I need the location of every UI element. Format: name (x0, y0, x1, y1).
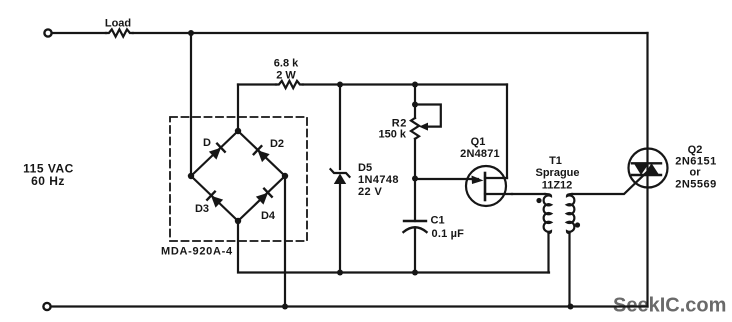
svg-text:Load: Load (105, 18, 131, 30)
wire right side vertical (646, 33, 648, 307)
wire B1 to transformer primary (512, 193, 545, 195)
wire D5 branch upper (339, 85, 341, 170)
svg-text:T1: T1 (549, 155, 562, 167)
wire bridge edge D (191, 131, 238, 176)
wire R2 lower to emitter node (414, 139, 416, 221)
diode D (209, 144, 225, 160)
svg-text:2N5569: 2N5569 (675, 179, 717, 191)
svg-text:D4: D4 (261, 210, 276, 222)
wire C1 lower (414, 229, 416, 273)
wire bridge right vertex down to bottom rail (284, 176, 286, 307)
wire secondary lower to bottom rail (568, 232, 570, 307)
node junction D5 bottom (337, 270, 343, 276)
svg-text:60 Hz: 60 Hz (31, 174, 65, 188)
svg-text:Sprague: Sprague (535, 167, 579, 179)
wire bridge left vertical (190, 33, 192, 176)
transformer T1 secondary winding (567, 194, 574, 233)
wire bridge bottom vertex down and middle rail (238, 221, 549, 273)
terminal top-left (44, 29, 51, 36)
wire bottom rail (51, 305, 648, 307)
wire 6.8k rail left (238, 83, 276, 85)
potentiometer R2 150k resistor body (411, 118, 419, 139)
svg-text:6.8 k: 6.8 k (274, 58, 299, 70)
svg-text:22 V: 22 V (358, 186, 382, 198)
svg-text:Q1: Q1 (471, 136, 486, 148)
terminal bottom-left (43, 303, 50, 310)
node junction R2 wiper top (412, 102, 418, 108)
node junction emitter/C1 (412, 176, 418, 182)
wire B2 drop (506, 85, 508, 179)
resistor Load (106, 29, 133, 36)
svg-text:2 W: 2 W (276, 70, 296, 82)
node bridge left vertex (188, 173, 194, 179)
svg-text:0.1 µF: 0.1 µF (432, 228, 465, 240)
svg-text:or: or (690, 167, 702, 179)
svg-text:Q2: Q2 (688, 144, 703, 156)
wire bridge edge D2 (238, 131, 285, 176)
zener diode D5 1N4748 (331, 169, 350, 184)
svg-text:2N4871: 2N4871 (460, 148, 500, 160)
wire primary lower stub (547, 232, 549, 273)
transformer T1 secondary phasing dot (575, 222, 580, 227)
wire bridge edge D3 (191, 176, 238, 221)
node junction D5 top (337, 82, 343, 88)
wire top rail left (52, 32, 106, 34)
capacitor C1 0.1uF (404, 221, 427, 232)
node bridge right vertex (282, 173, 288, 179)
wire R2 branch upper (414, 85, 416, 119)
node junction C1 bottom (412, 270, 418, 276)
svg-text:MDA-920A-4: MDA-920A-4 (161, 246, 233, 258)
svg-text:D5: D5 (358, 162, 372, 174)
diode D3 (207, 192, 223, 208)
diode D2 (254, 146, 270, 162)
node bridge top vertex (235, 128, 241, 134)
wire bridge edge D4 (238, 176, 285, 221)
svg-text:1N4748: 1N4748 (358, 174, 399, 186)
node junction A (188, 30, 194, 36)
svg-text:D3: D3 (195, 203, 209, 215)
svg-text:11Z12: 11Z12 (542, 180, 573, 192)
svg-text:C1: C1 (431, 215, 445, 227)
wire 6.8k rail right (303, 83, 507, 85)
svg-text:D2: D2 (270, 138, 284, 150)
transformer T1 primary winding (544, 194, 551, 233)
resistor 6.8k 2W (276, 81, 303, 88)
diode D4 (256, 189, 272, 205)
node bridge bottom vertex (235, 218, 241, 224)
node junction R2 top (412, 82, 418, 88)
wire emitter (415, 178, 478, 180)
bridge rectifier dashed box MDA-920A-4 (170, 117, 307, 241)
wire D5 branch lower (339, 184, 341, 273)
R2 wiper arrowhead (419, 123, 428, 131)
wire top rail right (133, 32, 648, 34)
triac Q2 (629, 149, 668, 188)
wire 6.8k corner down to bridge top (237, 85, 239, 132)
svg-text:D: D (203, 137, 211, 149)
node junction bottom rail secondary (568, 304, 574, 310)
node junction bottom rail bridge (282, 304, 288, 310)
svg-text:150 k: 150 k (378, 129, 406, 141)
transformer T1 primary phasing dot (536, 198, 541, 203)
UJT Q1 2N4871 (466, 166, 512, 206)
wire gate from secondary to triac (572, 170, 649, 194)
wire R2 wiper loop (415, 105, 441, 127)
